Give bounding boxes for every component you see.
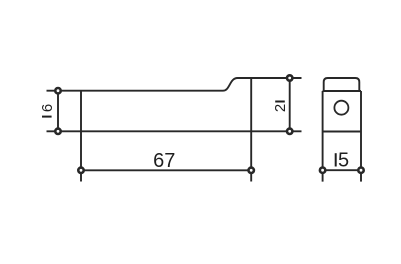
wire raised top edge with right extension line: [238, 77, 302, 79]
wire bottom edge with both extension lines: [47, 130, 302, 132]
wire S-curve step up to raised end: [223, 78, 238, 91]
value label 16: [39, 104, 56, 117]
wire left edge of part plus extension down: [80, 91, 82, 182]
svg-text:2: 2: [272, 104, 289, 112]
wire right edge of part plus extension down: [250, 78, 252, 182]
node terminator dot 67 left: [78, 168, 83, 173]
wire dimension line 16: [57, 91, 59, 132]
wire end view cap bottom line: [323, 90, 361, 92]
node terminator dot 21 bottom: [287, 129, 292, 134]
hole circle in end view: [334, 101, 348, 115]
node terminator dot 16 bottom: [55, 129, 60, 134]
wire end view body bottom line: [323, 131, 361, 133]
node terminator dot 15 left: [320, 168, 325, 173]
wire end view right side plus extension: [360, 91, 362, 182]
node terminator dot 16 top: [55, 88, 60, 93]
wire dimension line 67: [81, 169, 251, 171]
wire dimension line 15: [323, 169, 361, 171]
node terminator dot 21 top: [287, 75, 292, 80]
value label 21: [272, 102, 289, 113]
svg-text:6: 6: [39, 104, 56, 112]
wire end view left side plus extension: [322, 91, 324, 182]
svg-text:67: 67: [153, 150, 175, 172]
node terminator dot 15 right: [358, 168, 363, 173]
wire top edge of hook body with left extension line: [47, 90, 224, 92]
node terminator dot 67 right: [249, 168, 254, 173]
value label 15: [336, 150, 349, 172]
svg-text:5: 5: [338, 150, 349, 172]
wire end view cap rounded top: [324, 78, 360, 91]
wire dimension line 21: [289, 78, 291, 131]
